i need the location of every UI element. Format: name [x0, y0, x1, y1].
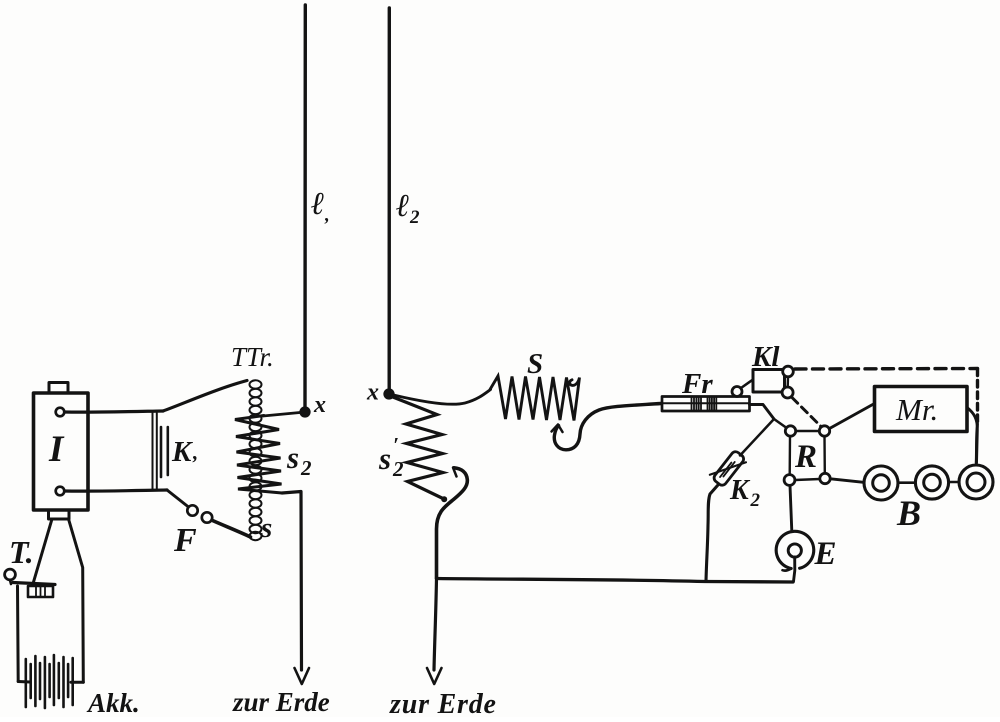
node x (right)	[384, 389, 394, 399]
svg-text:Fr: Fr	[681, 368, 713, 400]
earth arrowhead (left)	[295, 668, 310, 684]
switch F contact a	[187, 505, 197, 515]
wire s2 bottom to earth (left)	[282, 492, 302, 671]
bottom bus wire	[437, 579, 794, 583]
battery B cell 1 inner	[873, 475, 890, 492]
wire Mr to relay R top-right	[830, 404, 875, 429]
svg-text:2: 2	[300, 456, 312, 480]
wire node x to coil S	[394, 390, 491, 405]
Kl terminal bottom-right	[782, 387, 793, 398]
svg-text:2: 2	[750, 490, 761, 511]
svg-text:,: ,	[192, 440, 198, 464]
svg-text:F: F	[173, 522, 197, 559]
wire F to transformer primary bottom	[213, 521, 251, 538]
transformer TTr primary coil (spiral)	[250, 380, 262, 540]
Kl terminal left	[732, 387, 742, 397]
earth wire (right)	[434, 578, 437, 670]
wire between Kl terminals	[787, 377, 790, 387]
wire K1 bottom to switch F	[167, 490, 189, 507]
svg-text:zur Erde: zur Erde	[389, 689, 497, 717]
svg-text:2: 2	[409, 207, 420, 228]
battery Akk bottom-left ledge	[18, 680, 30, 684]
telephone E outer	[776, 531, 814, 568]
wire s2 top to node x	[263, 413, 300, 417]
svg-text:s: s	[260, 512, 272, 544]
relay R terminal top-right	[819, 426, 829, 436]
tapper Kl box	[753, 370, 785, 393]
wire K1 top to transformer primary top	[163, 381, 247, 412]
svg-text:,: ,	[324, 205, 330, 226]
antenna lead l2 (wire)	[388, 8, 391, 390]
telephone E inner	[788, 544, 801, 557]
coherer Fr mid line	[662, 402, 750, 404]
wire key T to battery Akk (left wall)	[16, 586, 20, 682]
svg-text:x: x	[313, 392, 326, 418]
relay R top wire	[796, 430, 819, 432]
terminal of I (top)	[56, 408, 65, 417]
wire Fr to junction	[750, 405, 775, 420]
receiver coil s2' (zigzag)	[392, 397, 445, 500]
battery B cell 2 inner	[924, 474, 941, 491]
dashed wire Kl to relay R	[792, 398, 821, 427]
svg-text:ℓ: ℓ	[311, 185, 325, 221]
induction coil I bottom tab	[49, 510, 70, 519]
wire E to bottom bus	[794, 557, 795, 582]
svg-text:TTr.: TTr.	[231, 342, 274, 372]
wire coil S tap to coherer Fr (with slider arrow hook)	[554, 404, 661, 450]
svg-text:′: ′	[393, 433, 399, 457]
svg-text:T.: T.	[9, 534, 34, 570]
relay R terminal bottom-right	[820, 473, 830, 483]
key T lever	[13, 583, 55, 585]
svg-text:zur Erde: zur Erde	[232, 687, 330, 717]
wire cell1-cell2	[898, 481, 915, 484]
battery Akk plates	[26, 655, 73, 708]
capacitor K2 (tilted)	[712, 450, 745, 487]
wire junction to K2	[740, 419, 774, 456]
svg-text:R: R	[794, 439, 817, 475]
telephone E outer pen tail	[783, 569, 792, 571]
svg-text:Akk.: Akk.	[86, 688, 140, 717]
battery B cell 3 inner	[967, 473, 985, 491]
relay R terminal top-left	[785, 426, 795, 436]
node x (left)	[300, 407, 310, 417]
battery B cell 1 outer	[864, 466, 898, 500]
Kl terminal top-right	[783, 366, 794, 377]
slider arrowhead on S	[552, 425, 563, 433]
svg-text:s: s	[286, 440, 299, 475]
capacitor K1 plates	[152, 413, 154, 489]
svg-text:Kl: Kl	[751, 341, 780, 373]
wire dashed end down to battery cell 3	[976, 424, 977, 463]
coherer Fr filings hatch group 1	[692, 398, 702, 411]
wire R bottom-right to battery	[831, 479, 864, 483]
dashed wire (vertical)	[976, 369, 979, 424]
svg-text:K: K	[171, 436, 193, 468]
coherer Fr body	[662, 397, 750, 412]
wire Mr to battery cell 3	[967, 408, 977, 464]
telegraph key T knob	[5, 569, 16, 580]
earth arrowhead (right)	[427, 668, 442, 684]
svg-text:I: I	[48, 429, 65, 470]
key T contact block	[28, 586, 53, 597]
wire I bottom tab to key T	[34, 519, 53, 582]
wire R bottom-left to telephone E	[790, 486, 792, 532]
coil s2' end dot	[441, 496, 447, 502]
wire I bottom terminal to K1	[65, 490, 168, 491]
svg-text:S: S	[527, 348, 543, 380]
svg-text:B: B	[896, 493, 921, 533]
svg-text:x: x	[366, 380, 379, 406]
relay R bottom wire	[795, 479, 820, 480]
key T stem	[10, 580, 11, 584]
slider arrowhead on s2'	[453, 468, 462, 477]
Morse writer Mr box	[875, 387, 968, 432]
battery B cell 2 outer	[915, 466, 948, 499]
svg-text:Mr.: Mr.	[895, 392, 938, 427]
svg-text:ℓ: ℓ	[396, 187, 410, 223]
svg-text:s: s	[378, 441, 391, 476]
transformer TTr secondary coil s2 (zigzag)	[235, 416, 282, 494]
wire K2 to bottom bus	[706, 486, 718, 582]
induction coil I top tab	[49, 383, 68, 394]
relay R right wire	[823, 436, 826, 473]
battery B cell 3 outer	[959, 465, 993, 499]
dashed wire Kl to battery (horizontal)	[795, 367, 978, 371]
switch F contact b	[202, 512, 212, 522]
key T contact block hatch	[36, 587, 45, 597]
wire Kl left terminal to box	[741, 380, 753, 389]
battery Akk bottom-right ledge	[71, 681, 83, 684]
tap wire from s2' to earth junction (with slider arrow)	[437, 468, 468, 578]
terminal of I (bottom)	[56, 487, 65, 496]
wire junction to relay R top-left	[774, 419, 786, 428]
antenna lead l1 (wire)	[303, 5, 307, 407]
K2 crossing line	[710, 462, 746, 475]
relay R terminal bottom-left	[784, 475, 795, 486]
svg-text:2: 2	[392, 457, 404, 481]
wire cell2-cell3	[949, 481, 959, 484]
induction coil I box	[34, 393, 89, 510]
svg-text:K: K	[729, 475, 751, 506]
wire battery Akk right wall	[69, 519, 84, 682]
coil S (zigzag)	[490, 376, 580, 421]
svg-text:E: E	[814, 536, 837, 572]
coherer Fr filings hatch group 2	[708, 398, 717, 411]
wire I top terminal to K1	[65, 411, 164, 412]
relay R left wire	[789, 436, 792, 474]
